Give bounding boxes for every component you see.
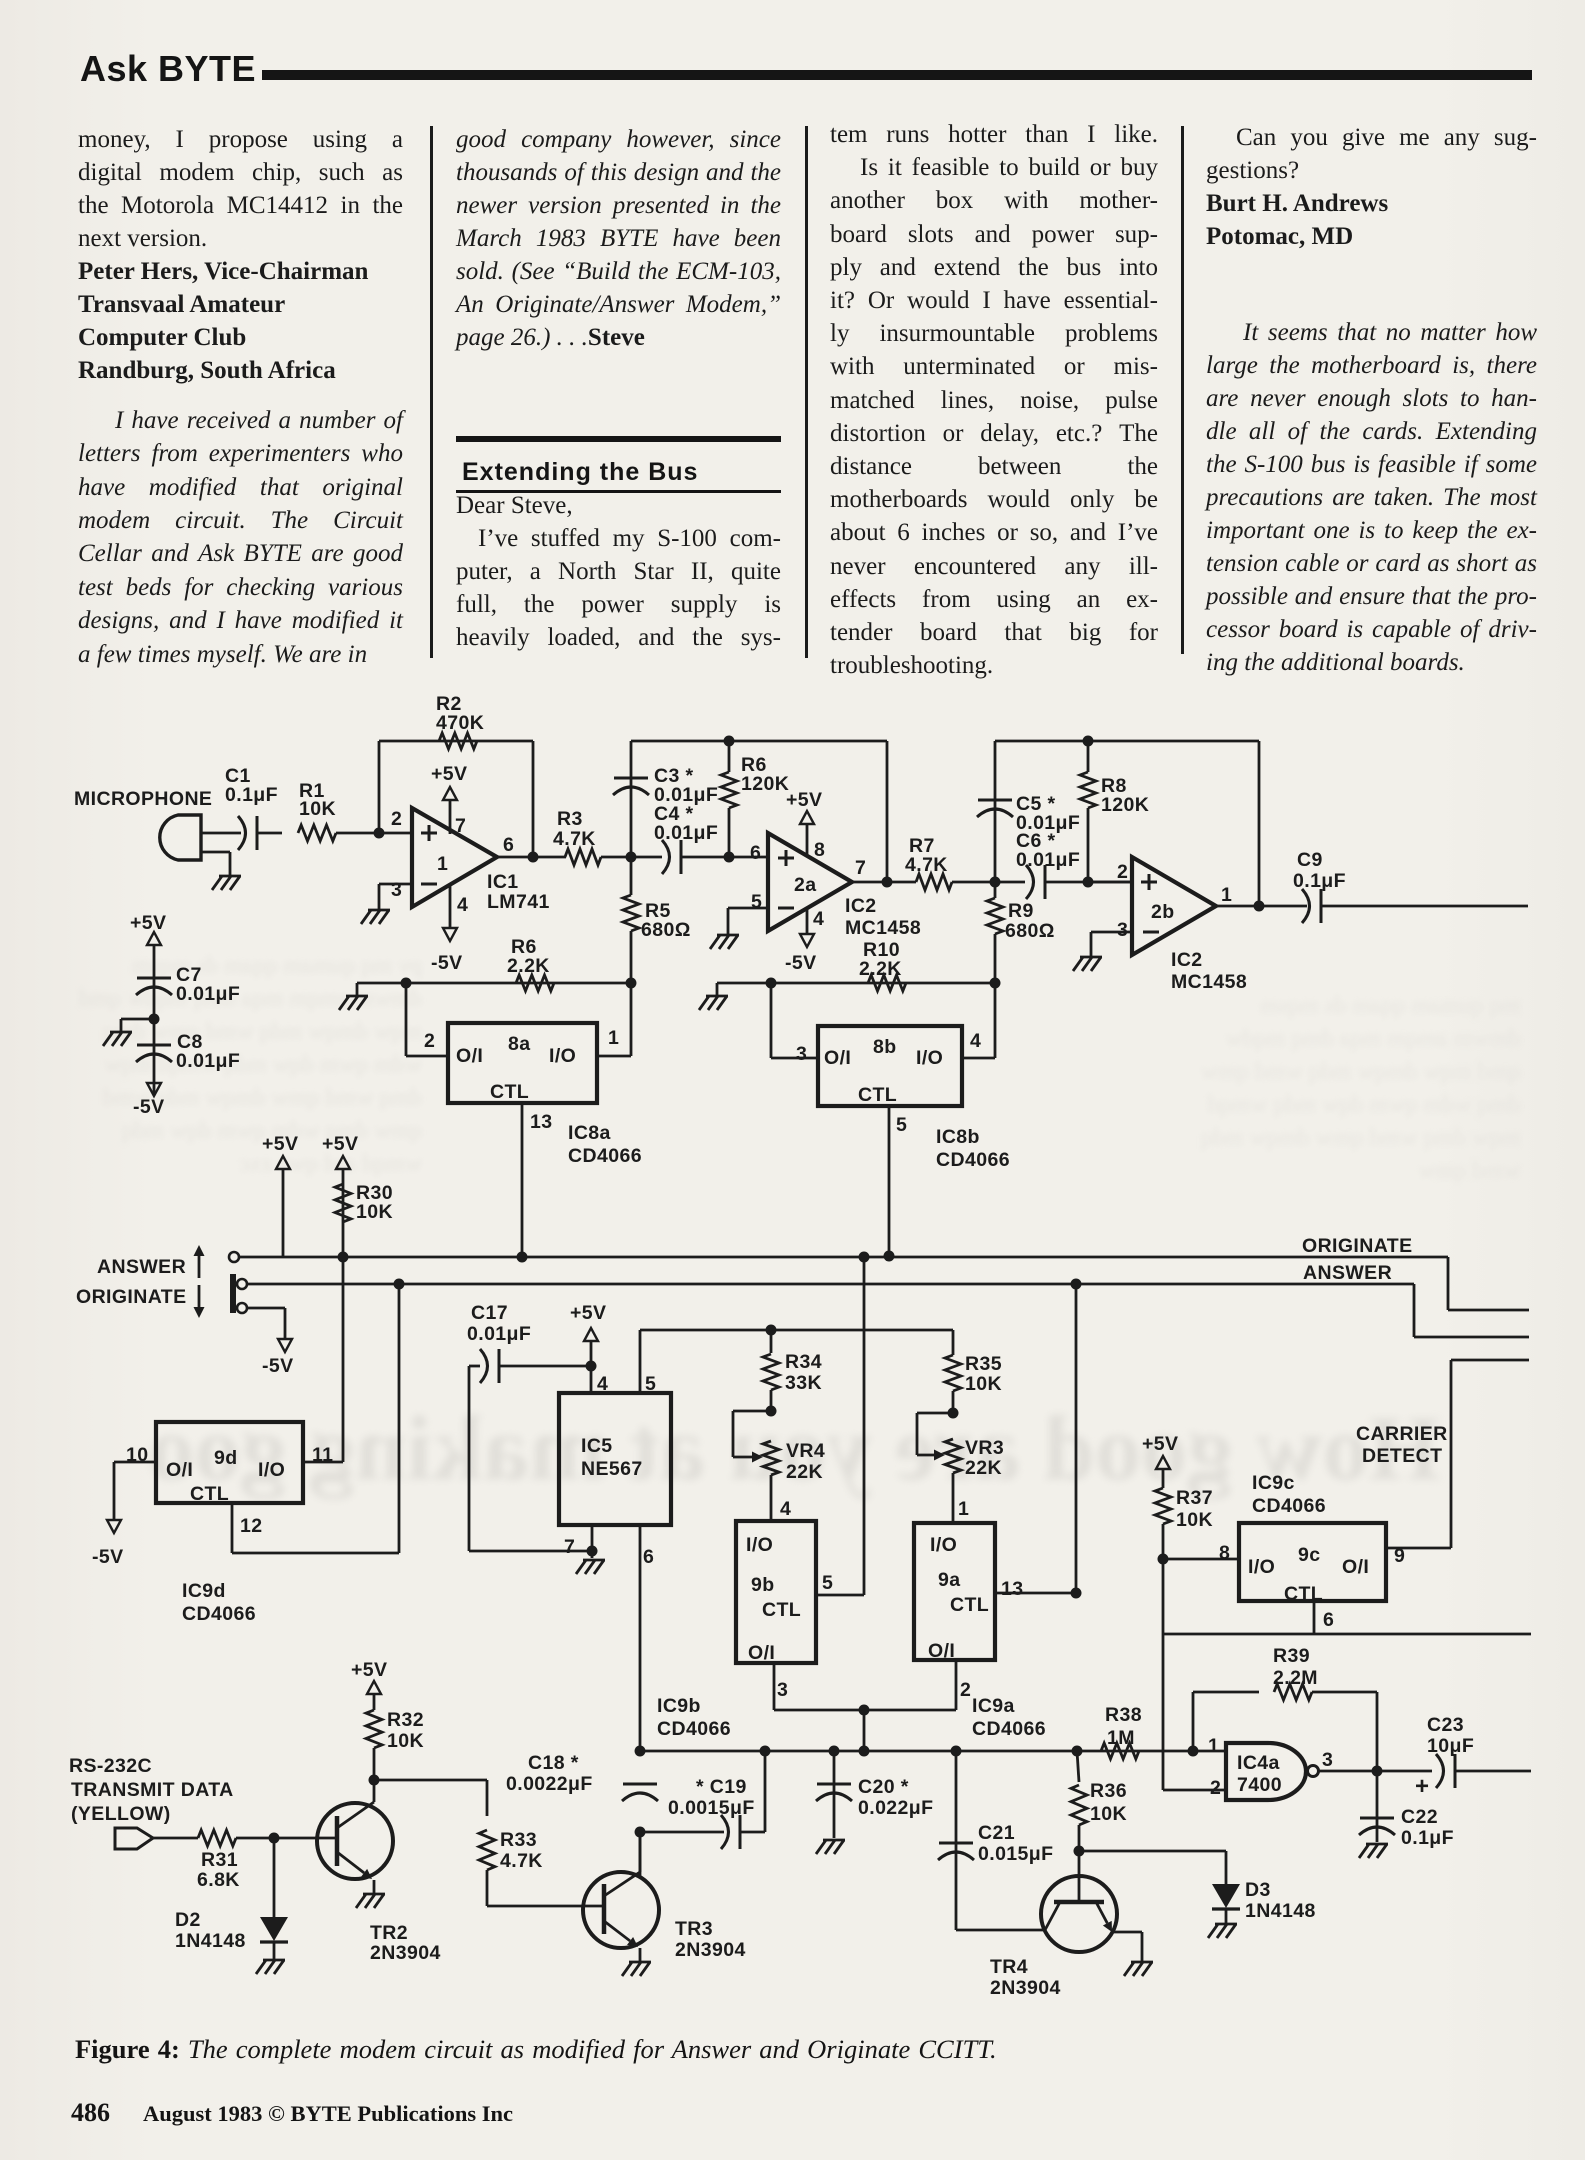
wire R37 node down to NAND pin2 (1162, 1559, 1165, 1790)
pin 4 -5V (449, 884, 452, 928)
wire to R33 (374, 1779, 487, 1782)
wire IC2b output (1216, 905, 1307, 908)
resistor R35 10K (952, 1330, 955, 1355)
node / wire IC9a CTL riser (1071, 1279, 1082, 1290)
node / wire IC9d CTL riser (394, 1279, 405, 1290)
svg-text:R31: R31 (201, 1849, 238, 1871)
+5V (IC5 pin4) (584, 1328, 598, 1341)
svg-text:R35: R35 (965, 1353, 1002, 1375)
lower left rail (357, 982, 631, 985)
svg-text:-5V: -5V (262, 1355, 294, 1377)
resistor R33 4.7K (479, 1830, 495, 1870)
switch IC9c CD4066 (1239, 1523, 1386, 1601)
ground (C22) (1366, 1843, 1388, 1846)
resistor R37 10K (1155, 1488, 1171, 1524)
+5V (R32) (367, 1681, 381, 1694)
capacitor C3 (630, 741, 633, 857)
svg-text:TR3: TR3 (675, 1918, 713, 1940)
svg-text:IC9a: IC9a (972, 1695, 1015, 1717)
wire rail over C3 (631, 740, 887, 743)
wire IC2a inverting to ground (728, 907, 768, 910)
svg-text:+5V: +5V (786, 789, 822, 811)
svg-text:D2: D2 (175, 1909, 201, 1931)
wire IC9a pin2 (955, 1660, 958, 1710)
svg-text:O/I: O/I (456, 1045, 483, 1067)
wire R31 to TR2 base (236, 1837, 337, 1840)
svg-text:8: 8 (1219, 1542, 1230, 1564)
svg-text:5: 5 (645, 1373, 656, 1395)
ground (IC2a pin5) (717, 934, 739, 937)
wire feedback rail (379, 740, 533, 743)
svg-text:2.2M: 2.2M (1273, 1667, 1318, 1689)
wire feedback riser (378, 741, 381, 833)
svg-text:10K: 10K (299, 798, 336, 820)
svg-text:C22: C22 (1401, 1806, 1438, 1828)
svg-text:120K: 120K (741, 773, 789, 795)
svg-text:8: 8 (814, 839, 825, 861)
wire C6 to R8 node (1045, 881, 1132, 884)
node C3/C4/R5 (626, 852, 637, 863)
svg-text:IC8a: IC8a (568, 1122, 611, 1144)
ground (left rail) (356, 983, 359, 996)
ground (TR2) (363, 1893, 385, 1896)
svg-text:0.1μF: 0.1μF (1401, 1827, 1454, 1849)
switch IC8a CD4066 (448, 1023, 597, 1103)
svg-text:1M: 1M (1107, 1727, 1135, 1749)
arrow up (answer) (198, 1256, 201, 1278)
pot VR3 22K (948, 1408, 959, 1419)
wire IC8a pin13 (521, 1103, 524, 1257)
svg-text:TR4: TR4 (990, 1956, 1028, 1978)
svg-text:IC1: IC1 (487, 871, 519, 893)
svg-text:13: 13 (1001, 1578, 1024, 1600)
wire IC9a CTL pin13 (995, 1592, 1076, 1595)
svg-text:D3: D3 (1245, 1879, 1271, 1901)
svg-text:2: 2 (1117, 861, 1128, 883)
svg-text:1: 1 (437, 853, 448, 875)
svg-text:4.7K: 4.7K (500, 1850, 543, 1872)
wire R3 to node (601, 856, 662, 859)
svg-text:680Ω: 680Ω (1005, 920, 1055, 942)
svg-text:2: 2 (424, 1030, 435, 1052)
+5V arrow (R30) (336, 1156, 350, 1169)
svg-text:0.01μF: 0.01μF (654, 822, 718, 844)
switch IC9d CD4066 (156, 1422, 303, 1503)
svg-text:7: 7 (455, 815, 466, 837)
svg-text:ANSWER: ANSWER (97, 1256, 186, 1278)
resistor R9 680 (987, 898, 1003, 934)
svg-text:9c: 9c (1298, 1544, 1321, 1566)
ground (IC2b pin3) (1080, 956, 1102, 959)
wire IC8b pin5 (888, 1106, 891, 1256)
svg-text:3: 3 (1322, 1749, 1333, 1771)
svg-text:C21: C21 (978, 1822, 1015, 1844)
svg-text:C17: C17 (471, 1302, 508, 1324)
svg-text:2b: 2b (1151, 901, 1175, 923)
svg-text:-5V: -5V (431, 952, 463, 974)
ground (D2) (263, 1959, 285, 1962)
ground (C7/C8 node) (121, 1018, 154, 1021)
svg-text:CTL: CTL (190, 1483, 229, 1505)
ground (C20) (823, 1839, 845, 1842)
svg-text:MICROPHONE: MICROPHONE (74, 788, 212, 810)
resistor R6 120K (721, 772, 737, 808)
wire C9 output (1321, 905, 1528, 908)
svg-text:CTL: CTL (858, 1084, 897, 1106)
svg-text:0.01μF: 0.01μF (176, 983, 240, 1005)
svg-text:O/I: O/I (748, 1642, 775, 1664)
resistor R34 33K (766, 1325, 777, 1336)
svg-text:2: 2 (391, 808, 402, 830)
svg-text:R34: R34 (785, 1351, 822, 1373)
svg-text:R37: R37 (1176, 1487, 1213, 1509)
node / wire to IC9b CTL (859, 1252, 870, 1263)
capacitor C6 (1026, 865, 1034, 899)
svg-text:10μF: 10μF (1427, 1735, 1474, 1757)
pin 7 +5V (449, 800, 452, 834)
svg-text:8a: 8a (508, 1033, 531, 1055)
svg-text:(YELLOW): (YELLOW) (71, 1803, 171, 1825)
svg-text:2: 2 (1210, 1777, 1221, 1799)
svg-text:5: 5 (822, 1572, 833, 1594)
svg-text:C9: C9 (1297, 849, 1323, 871)
wire pin2 from node (1088, 881, 1132, 884)
svg-text:0.01μF: 0.01μF (1016, 849, 1080, 871)
+5V arrow (C7 stack) (147, 932, 161, 945)
svg-text:-5V: -5V (92, 1546, 124, 1568)
svg-text:C18 *: C18 * (528, 1752, 579, 1774)
svg-text:0.01μF: 0.01μF (176, 1050, 240, 1072)
svg-text:2.2K: 2.2K (507, 955, 550, 977)
node IC8a pin13 (517, 1252, 528, 1263)
svg-text:MC1458: MC1458 (845, 917, 921, 939)
switch IC8b CD4066 (818, 1026, 962, 1106)
svg-text:22K: 22K (965, 1457, 1002, 1479)
wire IC9c CTL pin6 (1313, 1601, 1316, 1634)
wire IC5 pin6 down (639, 1525, 642, 1751)
wire C1 to R1 (257, 832, 282, 835)
svg-text:4: 4 (457, 894, 468, 916)
resistor R2 (439, 733, 477, 749)
svg-text:7: 7 (855, 857, 866, 879)
svg-text:+5V: +5V (1142, 1433, 1178, 1455)
ground (TR4) (1131, 1961, 1153, 1964)
svg-text:680Ω: 680Ω (641, 919, 691, 941)
node IC8b pin5 (884, 1251, 895, 1262)
svg-text:2N3904: 2N3904 (675, 1939, 746, 1961)
op-amp IC1 LM741 (412, 808, 497, 907)
svg-text:4.7K: 4.7K (905, 854, 948, 876)
svg-text:O/I: O/I (166, 1459, 193, 1481)
svg-text:10K: 10K (965, 1373, 1002, 1395)
wire rail to IC8a pin2 (405, 983, 408, 1056)
svg-text:10K: 10K (1090, 1803, 1127, 1825)
capacitor C22 (1376, 1771, 1379, 1842)
svg-text:120K: 120K (1101, 794, 1149, 816)
capacitor C21 (955, 1751, 958, 1930)
arrow down (originate) (198, 1285, 201, 1307)
svg-text:R38: R38 (1105, 1704, 1142, 1726)
ORIGINATE long line (240, 1256, 1448, 1259)
svg-text:8b: 8b (873, 1036, 897, 1058)
wire IC9c pin9 to carrier detect stub (1386, 1547, 1451, 1550)
wire IC8b pin4 (962, 1057, 995, 1060)
wire IC2a output (852, 881, 916, 884)
svg-text:R32: R32 (387, 1709, 424, 1731)
svg-text:9b: 9b (751, 1574, 775, 1596)
switch pole bar (230, 1274, 236, 1313)
open contact (answer throw) (229, 1252, 239, 1262)
svg-text:1: 1 (1221, 884, 1232, 906)
capacitor C8 (137, 1044, 171, 1047)
svg-text:CARRIER: CARRIER (1356, 1423, 1448, 1445)
svg-text:10K: 10K (387, 1730, 424, 1752)
resistor R3 (565, 849, 601, 865)
resistor R36 10K (1077, 1751, 1079, 1782)
switch IC9b CD4066 (736, 1521, 816, 1663)
wire IC5 pin5 (639, 1330, 642, 1393)
svg-text:+5V: +5V (351, 1659, 387, 1681)
pin 8 +5V (806, 824, 809, 857)
diode D2 1N4148 (273, 1838, 276, 1917)
svg-text:2.2K: 2.2K (859, 958, 902, 980)
svg-text:+5V: +5V (570, 1302, 606, 1324)
svg-text:VR4: VR4 (786, 1440, 825, 1462)
wire IC8a pin1 to node (597, 1055, 631, 1058)
resistor R8 120K (1080, 772, 1096, 808)
svg-text:I/O: I/O (549, 1045, 576, 1067)
node C5/C6/R9 (990, 877, 1001, 888)
resistor R31 6.8K (198, 1830, 236, 1846)
capacitor C23 (1436, 1754, 1444, 1788)
svg-text:6: 6 (1323, 1609, 1334, 1631)
resistor R1 (298, 825, 336, 841)
op-amp IC2a MC1458 (768, 833, 852, 931)
wire IC2b inverting to ground (1091, 931, 1132, 934)
svg-text:CTL: CTL (762, 1599, 801, 1621)
switch IC9a CD4066 (914, 1523, 995, 1660)
svg-text:CD4066: CD4066 (182, 1603, 256, 1625)
svg-text:6: 6 (750, 842, 761, 864)
svg-text:1: 1 (958, 1498, 969, 1520)
svg-text:+5V: +5V (322, 1133, 358, 1155)
svg-text:CTL: CTL (490, 1081, 529, 1103)
resistor R6 2.2K (516, 975, 554, 991)
svg-text:12: 12 (240, 1515, 263, 1537)
diode D3 1N4148 (1212, 1884, 1240, 1908)
svg-text:4: 4 (813, 908, 824, 930)
capacitor C5 (994, 741, 997, 882)
wire rail to IC8b pin3 (770, 983, 773, 1058)
wire IC9d pin11 (303, 1461, 343, 1464)
svg-text:0.01μF: 0.01μF (467, 1323, 531, 1345)
capacitor C18 (623, 1783, 657, 1786)
wire R1 to IC1 input (336, 832, 412, 835)
+5V arrow (switch) (276, 1156, 290, 1169)
svg-text:0.0015μF: 0.0015μF (668, 1797, 755, 1819)
svg-text:9a: 9a (938, 1569, 961, 1591)
node TR2 collector (369, 1775, 380, 1786)
svg-text:R3: R3 (557, 808, 583, 830)
wire R7 to node (952, 881, 1025, 884)
wire IC9b pin3 (773, 1663, 776, 1710)
resistor R5 680 (623, 895, 639, 931)
svg-text:I/O: I/O (258, 1459, 285, 1481)
svg-text:IC5: IC5 (581, 1435, 613, 1457)
wire IC1 inverting input to ground (379, 883, 412, 886)
node R37 bottom (1158, 1554, 1169, 1565)
wire rail over C5 (995, 740, 1259, 743)
svg-text:R39: R39 (1273, 1645, 1310, 1667)
svg-text:5: 5 (751, 891, 762, 913)
lower throw contact (237, 1303, 247, 1313)
svg-text:TRANSMIT DATA: TRANSMIT DATA (71, 1779, 234, 1801)
capacitor C7 (137, 977, 171, 980)
resistor R30 (335, 1184, 351, 1222)
svg-text:6: 6 (503, 834, 514, 856)
wire IC5 pin7 to ground (591, 1525, 594, 1558)
svg-text:I/O: I/O (1248, 1556, 1275, 1578)
wire IC9d pin10 to -5V (114, 1461, 156, 1464)
svg-text:4: 4 (970, 1030, 981, 1052)
svg-text:2: 2 (960, 1679, 971, 1701)
svg-text:O/I: O/I (1342, 1556, 1369, 1578)
svg-text:+5V: +5V (130, 912, 166, 934)
wire output riser to rail (1258, 741, 1261, 906)
IC5 NE567 (559, 1393, 671, 1525)
-5V arrow (C8) (147, 1083, 161, 1096)
node R30/answer line (338, 1252, 349, 1263)
resistor R39 2.2M loop (1192, 1692, 1195, 1751)
svg-text:DETECT: DETECT (1362, 1445, 1442, 1467)
svg-text:-5V: -5V (133, 1096, 165, 1118)
svg-text:3: 3 (1117, 919, 1128, 941)
ground (D3) (1215, 1923, 1237, 1926)
svg-text:IC4a: IC4a (1237, 1752, 1280, 1774)
wire rail down to output (532, 741, 535, 857)
ground (IC1 pin3) (368, 909, 390, 912)
+5V (R37) (1156, 1456, 1170, 1469)
svg-text:IC9d: IC9d (182, 1580, 226, 1602)
node R36 bottom (1074, 1846, 1085, 1857)
svg-text:7: 7 (564, 1536, 575, 1558)
svg-text:CTL: CTL (950, 1594, 989, 1616)
svg-text:+: + (1415, 1773, 1429, 1800)
ground (TR3) (629, 1961, 651, 1964)
ground (middle rail) (716, 983, 719, 996)
microphone (160, 815, 201, 860)
svg-text:2N3904: 2N3904 (370, 1942, 441, 1964)
svg-text:9d: 9d (214, 1447, 238, 1469)
wire C18 down to TR3 collector (639, 1832, 642, 1878)
svg-text:CD4066: CD4066 (568, 1145, 642, 1167)
svg-text:I/O: I/O (746, 1534, 773, 1556)
svg-text:C23: C23 (1427, 1714, 1464, 1736)
svg-text:MC1458: MC1458 (1171, 971, 1247, 993)
node C7/C8 (149, 1014, 160, 1025)
capacitor C19 (640, 1831, 724, 1834)
svg-text:CD4066: CD4066 (972, 1718, 1046, 1740)
resistor R10 2.2K (868, 975, 906, 991)
svg-text:0.1μF: 0.1μF (225, 784, 278, 806)
wire C4 to pin6 node (681, 856, 768, 859)
svg-text:CTL: CTL (1284, 1583, 1323, 1605)
svg-text:1: 1 (608, 1027, 619, 1049)
svg-text:R36: R36 (1090, 1780, 1127, 1802)
svg-text:33K: 33K (785, 1372, 822, 1394)
svg-text:* C19: * C19 (696, 1776, 747, 1798)
wire lower throw to -5V (247, 1307, 285, 1310)
svg-text:R33: R33 (500, 1829, 537, 1851)
svg-text:TR2: TR2 (370, 1922, 408, 1944)
svg-text:ORIGINATE: ORIGINATE (1302, 1235, 1413, 1257)
svg-text:+5V: +5V (431, 763, 467, 785)
wire IC9d pin12 (231, 1503, 234, 1553)
wire R33 to TR3 base (487, 1905, 604, 1908)
svg-text:5: 5 (896, 1114, 907, 1136)
svg-text:IC9b: IC9b (657, 1695, 701, 1717)
resistor R7 (916, 874, 952, 890)
svg-text:7400: 7400 (1237, 1774, 1282, 1796)
wire IC9b CTL pin5 (816, 1594, 864, 1597)
svg-text:3: 3 (391, 879, 402, 901)
svg-text:O/I: O/I (928, 1640, 955, 1662)
pin 4 -5V (806, 907, 809, 934)
wire mic to C1 (201, 832, 241, 835)
wire C21 to TR4 base (956, 1929, 1045, 1932)
svg-text:CD4066: CD4066 (657, 1718, 731, 1740)
svg-text:1N4148: 1N4148 (1245, 1900, 1316, 1922)
svg-text:I/O: I/O (930, 1534, 957, 1556)
main mixing line (640, 1750, 1226, 1753)
NAND IC4a 7400 (1226, 1743, 1306, 1800)
svg-text:0.1μF: 0.1μF (1293, 870, 1346, 892)
ground (microphone) (201, 851, 230, 854)
svg-text:1: 1 (1208, 1735, 1219, 1757)
resistor R32 10K (366, 1710, 382, 1748)
svg-text:6: 6 (643, 1546, 654, 1568)
wire to D3 (1079, 1850, 1226, 1853)
capacitor C17 (469, 1365, 480, 1368)
svg-text:CD4066: CD4066 (936, 1149, 1010, 1171)
wire C17 left leg down (468, 1366, 471, 1551)
svg-text:O/I: O/I (824, 1047, 851, 1069)
transistor TR2 2N3904 (317, 1803, 393, 1879)
svg-text:NE567: NE567 (581, 1458, 643, 1480)
svg-text:IC2: IC2 (845, 895, 877, 917)
wire IC1 output (497, 856, 566, 859)
resistor R38 1M (1101, 1743, 1139, 1759)
svg-text:+5V: +5V (262, 1133, 298, 1155)
svg-text:I/O: I/O (916, 1047, 943, 1069)
svg-text:3: 3 (796, 1043, 807, 1065)
svg-text:10K: 10K (356, 1201, 393, 1223)
wire plug to R31 (153, 1837, 198, 1840)
capacitor C1 (238, 816, 246, 850)
transistor TR4 2N3904 (1041, 1876, 1117, 1952)
op-amp IC2b MC1458 (1132, 857, 1216, 955)
svg-text:CD4066: CD4066 (1252, 1495, 1326, 1517)
node: IC1 noninverting input (374, 828, 385, 839)
wire output riser to rail (886, 741, 889, 882)
capacitor C4 (662, 840, 670, 874)
svg-text:-5V: -5V (785, 952, 817, 974)
svg-text:ORIGINATE: ORIGINATE (76, 1286, 187, 1308)
svg-text:2a: 2a (794, 874, 817, 896)
RS-232C plug (115, 1828, 153, 1849)
svg-text:0.0022μF: 0.0022μF (506, 1773, 593, 1795)
svg-text:1N4148: 1N4148 (175, 1930, 246, 1952)
